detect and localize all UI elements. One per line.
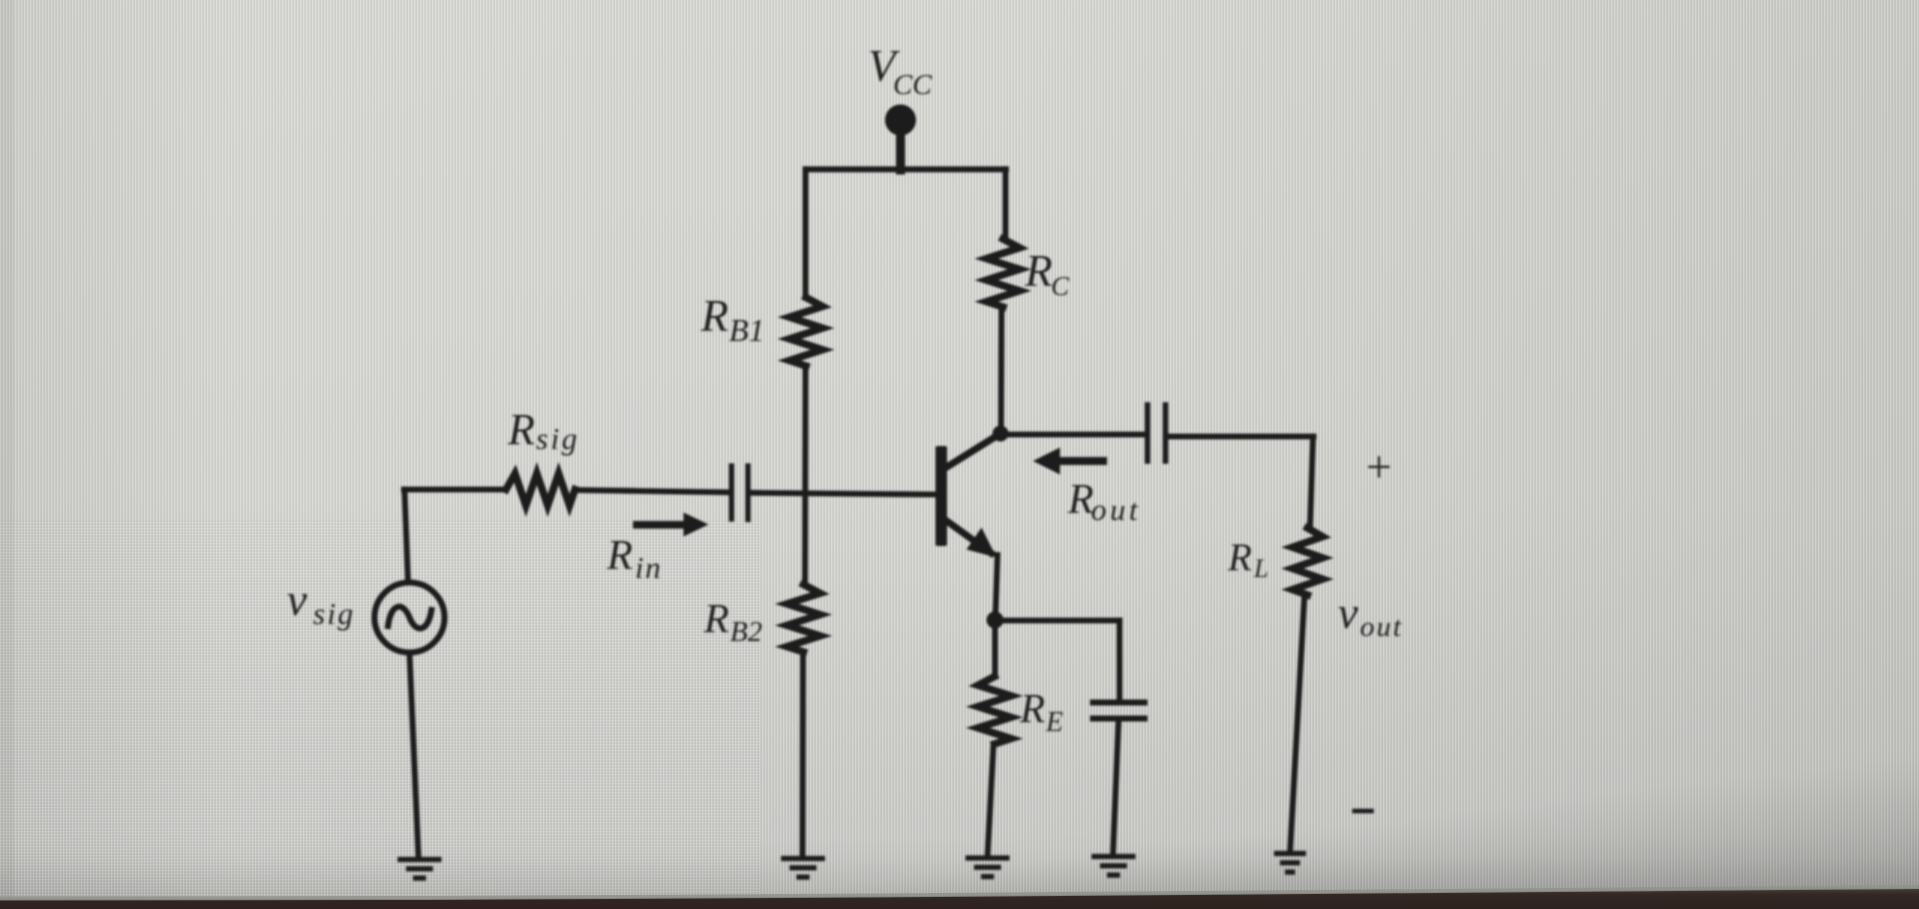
svg-text:L: L <box>1253 554 1268 583</box>
svg-text:R: R <box>1067 477 1094 523</box>
svg-text:v: v <box>1338 588 1358 638</box>
svg-text:sig: sig <box>313 596 355 631</box>
svg-text:B1: B1 <box>729 312 765 348</box>
svg-text:R: R <box>703 595 729 641</box>
svg-text:E: E <box>1045 707 1063 738</box>
svg-text:sig: sig <box>536 421 580 456</box>
svg-text:R: R <box>606 533 633 579</box>
svg-text:CC: CC <box>893 69 932 101</box>
svg-text:+: + <box>1366 441 1392 492</box>
svg-text:R: R <box>700 291 729 341</box>
svg-text:C: C <box>1051 271 1070 301</box>
svg-text:R: R <box>1227 536 1252 579</box>
svg-text:R: R <box>1024 246 1053 296</box>
svg-text:out: out <box>1091 492 1141 527</box>
svg-text:R: R <box>1019 685 1045 731</box>
svg-text:B2: B2 <box>730 616 762 648</box>
svg-text:in: in <box>635 550 662 585</box>
svg-text:v: v <box>287 575 307 625</box>
svg-text:out: out <box>1360 611 1403 643</box>
svg-text:R: R <box>507 405 535 454</box>
